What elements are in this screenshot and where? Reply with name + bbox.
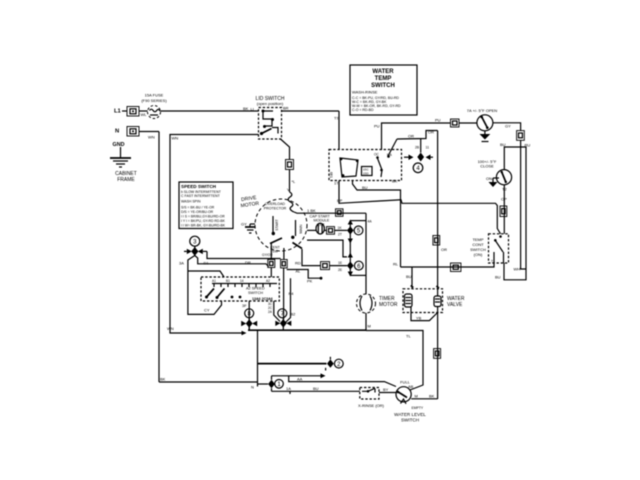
wire branch down to water valve, label BU — [406, 267, 413, 289]
svg-text:OC: OC — [374, 153, 379, 157]
svg-text:N: N — [115, 129, 119, 135]
wire 100F loop top, label BU — [495, 142, 526, 280]
numbered step circle 3 — [190, 236, 200, 246]
connector P12 on valve net — [451, 263, 461, 272]
numbered step circle 6 — [354, 261, 363, 270]
wire lid switch bottom to motor connector — [281, 139, 290, 160]
wire bus top to right edge — [350, 220, 372, 224]
svg-text:B2: B2 — [291, 312, 297, 317]
wire thermostat to right bus, label GY — [493, 123, 521, 131]
svg-text:FRAME: FRAME — [117, 177, 135, 183]
water temp switch S2 dashed body — [329, 139, 402, 181]
bottom junction bus (thick) — [248, 329, 366, 331]
numbered step circle 5 — [354, 226, 363, 235]
svg-text:TEMP: TEMP — [375, 76, 392, 82]
svg-text:WATER: WATER — [372, 69, 394, 75]
svg-text:BP: BP — [337, 198, 343, 203]
connector bus vertical with arrows — [348, 220, 353, 277]
wire PU from connector to water temp switch — [374, 118, 451, 151]
wire OR net from water temp switch MA to right bus — [397, 130, 438, 140]
svg-text:OR: OR — [441, 247, 447, 252]
svg-text:VALVE: VALVE — [447, 302, 463, 308]
connector P4 on PU wire — [451, 119, 460, 127]
connector P1 (line plug) — [127, 107, 139, 117]
svg-text:BU: BU — [406, 274, 412, 279]
start winding — [272, 216, 279, 235]
svg-text:OVERLOAD: OVERLOAD — [265, 202, 285, 206]
svg-text:BK: BK — [429, 394, 435, 399]
node 1 diamond — [258, 376, 275, 392]
wire water temp sw pin T to water valve net, label BU — [353, 181, 401, 268]
svg-text:LI: LI — [251, 107, 254, 112]
svg-text:YB: YB — [416, 316, 422, 321]
wire node3 left branch down to speed switch bottom, label 3A CY — [179, 256, 222, 315]
connector P6 — [281, 260, 288, 268]
svg-text:MOTOR: MOTOR — [379, 302, 398, 308]
svg-text:X-RINSE (OR): X-RINSE (OR) — [358, 403, 385, 408]
svg-text:(open position): (open position) — [257, 101, 284, 106]
svg-text:7A +/- 5°F OPEN: 7A +/- 5°F OPEN — [467, 108, 498, 113]
svg-text:AL: AL — [296, 269, 302, 274]
water temp switch legend box — [350, 65, 417, 115]
temp control switch label — [470, 237, 486, 257]
svg-text:EMPTY: EMPTY — [412, 406, 424, 410]
centrifugal switch arms — [270, 238, 302, 254]
wire N left bus vertical down — [158, 132, 160, 383]
speed switch S3 dashed body — [201, 277, 279, 301]
svg-text:I I W= BR-BK, GY-BU/RD-BK: I I W= BR-BK, GY-BU/RD-BK — [181, 224, 226, 228]
svg-text:RL: RL — [393, 262, 399, 267]
svg-text:1K: 1K — [338, 226, 343, 230]
svg-text:B1: B1 — [226, 279, 230, 283]
svg-text:3F: 3F — [242, 303, 247, 308]
wire valve left coil bottom loop, label YB — [411, 307, 438, 321]
svg-text:OR: OR — [408, 134, 414, 139]
node 3 diamond with arrows — [184, 246, 207, 256]
svg-text:CY: CY — [204, 308, 210, 313]
wire PK row down to node 7 diamond — [286, 278, 291, 322]
cap start module label — [310, 215, 331, 228]
svg-text:OP: OP — [501, 197, 507, 202]
svg-text:DR: DR — [245, 260, 251, 265]
svg-text:FULL: FULL — [400, 380, 411, 385]
svg-text:D/S = YE-OR/BU-OR: D/S = YE-OR/BU-OR — [181, 210, 214, 214]
svg-text:14: 14 — [240, 279, 244, 283]
svg-text:WL: WL — [141, 112, 148, 117]
wire center bus down to node 1 — [257, 330, 259, 386]
svg-text:11: 11 — [426, 146, 430, 150]
wire connector to node 5 diamond, label 1K — [335, 226, 348, 237]
wire bus to water level switch corner — [366, 331, 423, 391]
temp control switch S4 dashed body — [489, 234, 509, 264]
svg-text:I I S = BR/BU,GY-BU/RD-OR: I I S = BR/BU,GY-BU/RD-OR — [181, 215, 225, 219]
wire motor aux row to bus — [307, 240, 347, 257]
wire temp switch T1 to water valve net — [393, 262, 494, 268]
svg-text:2B: 2B — [415, 146, 420, 150]
wire node3 right branch row A, label D1 — [204, 251, 281, 265]
wire row to node 2 (thick) — [258, 363, 327, 365]
numbered step circle 4 — [413, 163, 423, 173]
wire water level switch to right bus, labels M BK — [411, 394, 437, 399]
svg-text:2T: 2T — [338, 233, 342, 237]
thermostat TH2 100F label — [478, 159, 497, 169]
svg-text:T1: T1 — [491, 260, 495, 264]
wire lid switch output, label BR — [282, 106, 340, 112]
numbered step circle 8 — [245, 309, 254, 318]
junction arrow into node below 8 — [242, 331, 247, 335]
ground symbol TH2 with ON label — [486, 176, 499, 187]
node 7 diamond with arrows — [275, 318, 291, 330]
svg-text:GND: GND — [113, 142, 125, 148]
svg-text:C-O = RD-BD: C-O = RD-BD — [352, 108, 374, 112]
capacitor C1 — [316, 223, 324, 234]
svg-text:M: M — [415, 394, 418, 399]
label TL AB — [406, 334, 414, 390]
svg-text:BK: BK — [392, 179, 398, 184]
svg-text:2E: 2E — [338, 268, 343, 272]
wire speed switch pins down to node 7, labels 3C 2C — [268, 301, 280, 322]
connector P9 on row 6 — [321, 262, 330, 270]
svg-text:SWITCH: SWITCH — [248, 291, 263, 295]
svg-text:1E: 1E — [338, 261, 343, 265]
water level switch label — [394, 412, 426, 423]
thermostat TH2 — [496, 170, 511, 185]
svg-text:SWITCH: SWITCH — [401, 418, 419, 423]
svg-text:WH: WH — [514, 267, 521, 272]
numbered step circle 1 — [275, 380, 284, 389]
wire connector P4 to thermostat — [459, 122, 477, 124]
svg-text:PK: PK — [307, 279, 313, 284]
svg-text:BU: BU — [500, 142, 506, 147]
svg-text:S/S = BK-BU / YE-OR: S/S = BK-BU / YE-OR — [181, 206, 215, 210]
svg-text:V: V — [287, 187, 290, 192]
svg-text:PROTECTOR: PROTECTOR — [264, 207, 287, 211]
svg-text:1T: 1T — [334, 181, 339, 186]
svg-text:A2: A2 — [266, 279, 270, 283]
wire node3 row B to connector P5 — [195, 256, 269, 267]
wire connector P6 down to node 7, label P4 — [284, 268, 297, 320]
svg-text:(F90 SERIES): (F90 SERIES) — [141, 98, 167, 103]
node 8 diamond with arrows — [241, 318, 257, 330]
wire N to left bus, label WN — [139, 132, 159, 140]
right edge bus of cap module down to timer — [365, 213, 367, 294]
svg-text:GY: GY — [241, 222, 247, 227]
lid switch S1 (open position) — [256, 96, 285, 139]
svg-text:BR: BR — [283, 106, 289, 111]
svg-text:ON: ON — [486, 176, 492, 181]
connector P8 on row 5 — [325, 227, 335, 235]
svg-text:P4: P4 — [289, 291, 295, 296]
overload protector coil — [288, 192, 294, 212]
svg-text:BY: BY — [383, 387, 389, 392]
svg-text:AA: AA — [297, 377, 303, 382]
wire TH2 to temp control switch, label OP — [501, 185, 507, 234]
wire bus bottom to right edge — [350, 274, 366, 276]
connector P13 on right long bus — [433, 236, 447, 253]
svg-text:BU: BU — [495, 275, 501, 280]
wire connector to node 6 diamond, label 1E — [330, 261, 348, 272]
svg-text:1A: 1A — [286, 386, 291, 391]
svg-text:A2 SPEED: A2 SPEED — [246, 287, 265, 291]
svg-text:WN: WN — [167, 326, 174, 331]
connector P5 — [268, 260, 275, 268]
wire fuse to lid switch — [161, 110, 259, 112]
ground symbol thermostat — [480, 131, 491, 142]
wire connector P5 into speed switch — [270, 268, 272, 278]
wire cent sw left to connector, label GY/OR — [262, 244, 273, 260]
node 5 diamond junction — [347, 226, 354, 234]
svg-text:15D: 15D — [363, 172, 369, 176]
connector P10 on right bus — [517, 131, 525, 141]
svg-text:I Y I = BK/PU, GY-RD RD-BK: I Y I = BK/PU, GY-RD RD-BK — [181, 219, 226, 223]
connector P14 below valve — [434, 349, 441, 359]
svg-text:3A: 3A — [179, 261, 184, 266]
svg-text:WASH-RINSE: WASH-RINSE — [352, 90, 378, 95]
label BK LI at lid switch input — [243, 106, 254, 112]
wire x-rinse to water level switch, label BY — [379, 387, 396, 393]
svg-text:WATER LEVEL: WATER LEVEL — [394, 412, 426, 417]
wire main winding to row 6, label RD — [295, 249, 321, 266]
timer motor M2 dashed — [357, 294, 398, 313]
svg-text:SW: SW — [272, 250, 278, 254]
wire N bus row into node 1, label N — [159, 377, 258, 390]
wire water temp sw pin 1T to temp control switch, label BP — [334, 179, 501, 234]
svg-text:M: M — [368, 324, 371, 329]
svg-text:BU: BU — [362, 185, 368, 190]
wire overload to cap start module, label 1 BK — [294, 208, 366, 213]
connector P7 on BK wire — [336, 209, 344, 217]
svg-text:WN: WN — [172, 136, 179, 141]
svg-text:C FAST INTERMITTENT: C FAST INTERMITTENT — [181, 194, 221, 198]
wire long row to water level switch top, label AA — [289, 376, 396, 387]
svg-text:15A FUSE: 15A FUSE — [145, 93, 164, 98]
svg-text:TL: TL — [406, 334, 411, 339]
svg-text:PU: PU — [374, 124, 380, 129]
svg-text:PU: PU — [435, 118, 441, 123]
svg-text:TS: TS — [334, 116, 339, 121]
node 2 diamond — [326, 357, 334, 371]
wire lid switch lower return to left bus 2, label WN — [167, 135, 259, 334]
fuse F1 15A — [148, 106, 161, 119]
svg-text:START: START — [275, 218, 279, 230]
connector P2 (neutral plug) — [127, 127, 139, 137]
connector P3 on motor lead — [286, 160, 294, 170]
svg-text:13A6 2C3A6: 13A6 2C3A6 — [252, 297, 273, 301]
wire row arrow right of node1 — [272, 373, 326, 378]
svg-text:WN: WN — [148, 135, 155, 140]
ground symbol (cabinet frame) — [110, 158, 131, 167]
svg-text:MODULE: MODULE — [314, 219, 330, 223]
svg-text:GY/OR: GY/OR — [262, 253, 273, 257]
wire GY to motor ground — [241, 222, 255, 227]
node 4 junction diamond with arrows — [404, 139, 433, 162]
wire left bus2 branch into speed switch top — [188, 271, 224, 277]
wire connector to fuse, label WL — [139, 111, 148, 117]
right bus down, label OR — [521, 140, 531, 269]
label CABINET FRAME — [115, 171, 137, 183]
water level switch S6 — [396, 380, 424, 411]
svg-text:MAIN: MAIN — [299, 224, 303, 233]
svg-text:L1: L1 — [114, 109, 122, 115]
svg-text:CLOSE: CLOSE — [480, 164, 494, 169]
svg-text:BK: BK — [243, 106, 249, 111]
x-rinse switch S5 dashed — [358, 388, 385, 409]
wire L1 to connector — [122, 110, 127, 112]
drive motor M1 dashed outline — [240, 195, 307, 251]
svg-text:OR: OR — [428, 130, 434, 135]
svg-text:GY: GY — [505, 124, 511, 129]
connector P11 — [500, 206, 507, 217]
svg-text:(ON): (ON) — [474, 252, 483, 257]
svg-text:1 BK: 1 BK — [307, 208, 316, 213]
wire timer motor to bus, label M — [366, 313, 371, 330]
wire cent sw right to connector P6 — [283, 248, 285, 260]
svg-text:A1: A1 — [212, 279, 216, 283]
water valve V1 dashed body — [403, 289, 443, 313]
svg-text:SPEED SWITCH: SPEED SWITCH — [181, 184, 217, 189]
wire lid switch to water temp switch, label TS — [334, 111, 339, 150]
speed switch legend box — [179, 182, 233, 229]
svg-text:WASH SPIN: WASH SPIN — [181, 200, 201, 204]
svg-text:N: N — [251, 385, 254, 390]
wire motor to capacitor row 5 — [307, 229, 316, 231]
right long bus through valve to water level switch — [436, 131, 439, 400]
water valve label — [447, 296, 465, 308]
wire cent sw AL jog to PK pin — [287, 269, 323, 284]
wire GND lead — [120, 147, 122, 158]
svg-text:D1: D1 — [204, 261, 210, 266]
ground symbol motor — [245, 224, 256, 233]
svg-text:4A: 4A — [368, 220, 373, 224]
thermostat TH1 — [477, 115, 493, 131]
wire node1 bottom row to x-rinse, labels — [272, 386, 360, 394]
main winding — [291, 220, 303, 239]
svg-text:T2: T2 — [502, 187, 507, 192]
wire speed switch to node 8 — [242, 301, 249, 330]
wire connector to drive motor, label *L — [287, 170, 296, 193]
svg-text:BK: BK — [160, 377, 166, 382]
numbered step circle 7 — [278, 309, 287, 318]
svg-text:BU: BU — [313, 386, 319, 391]
label 15A FUSE (F90 SERIES) — [141, 93, 167, 104]
svg-text:6R1: 6R1 — [329, 172, 333, 178]
svg-text:SWITCH: SWITCH — [371, 83, 395, 89]
numbered step circle 2 — [334, 359, 343, 368]
svg-text:RD: RD — [295, 261, 301, 266]
node 6 diamond junction — [347, 261, 354, 269]
